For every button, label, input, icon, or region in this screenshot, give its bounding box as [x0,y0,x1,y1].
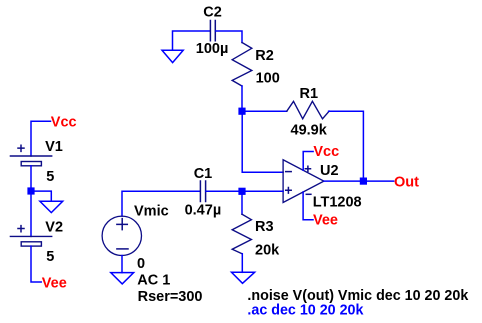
svg-text:C2: C2 [203,5,222,21]
Vcc flag wire V1 [31,121,51,156]
output node junction [360,178,367,185]
svg-text:Vee: Vee [42,275,67,291]
op-amp inverting input mark [286,171,292,173]
op-amp Vee pin and flag [303,192,313,220]
op-amp U2 triangle [283,160,324,203]
wire R2 bottom to node A [241,86,243,111]
op-amp V+ supply mark [305,166,310,171]
svg-text:49.9k: 49.9k [291,123,328,139]
svg-text:Rser=300: Rser=300 [138,289,203,305]
svg-text:R1: R1 [300,86,319,102]
wire Vmic top to C1 [122,191,200,216]
wire Vmic bottom to ground G3 [121,256,123,273]
svg-text:LT1208: LT1208 [313,195,362,211]
svg-text:Vcc: Vcc [313,144,339,160]
svg-text:V1: V1 [45,139,63,155]
resistor R2 [232,43,252,87]
wire C1 to op-amp non-inverting input [206,190,283,192]
wire R3 bottom to ground G4 [241,254,243,273]
Vmic plus mark [117,219,127,230]
voltage source Vmic circle [102,216,141,255]
wire node B down to R3 [241,191,243,214]
svg-text:20k: 20k [255,242,280,258]
svg-text:R3: R3 [255,219,274,235]
svg-text:.ac dec 10 20 20k: .ac dec 10 20 20k [247,303,363,319]
wire R1 right to output node [329,111,364,181]
svg-text:100µ: 100µ [196,41,229,57]
ground G2 [40,201,63,212]
wire V1 bottom to V2 top [30,166,32,237]
svg-text:Out: Out [394,174,419,190]
op-amp non-inverting input mark [286,188,292,194]
battery V2 plus mark [18,226,24,232]
svg-text:V2: V2 [45,219,63,235]
capacitor C1 [200,181,205,202]
svg-text:R2: R2 [255,48,274,64]
svg-text:Vee: Vee [313,212,338,228]
svg-text:U2: U2 [320,163,339,179]
capacitor C2 [210,21,215,41]
ground G3 [111,273,134,284]
svg-text:C1: C1 [194,166,213,182]
ground G1 [162,50,183,62]
resistor R3 [232,214,251,254]
wire node A to R1 [242,110,287,112]
wire C2 to R2 top [216,31,242,43]
wire top-left C2 to ground bend [173,31,210,50]
ground G4 [232,272,255,283]
op-amp Vcc pin and flag [303,152,313,171]
svg-text:AC 1: AC 1 [137,272,170,288]
svg-text:0.47µ: 0.47µ [185,203,222,219]
battery V2 plates [10,236,51,246]
svg-text:0: 0 [137,256,145,272]
svg-text:.noise V(out) Vmic dec 10 20 2: .noise V(out) Vmic dec 10 20 20k [247,288,468,304]
node B junction [238,188,245,195]
wire junction to ground G2 [31,191,51,201]
resistor R1 [287,101,329,119]
wire feedback node A down to inverting input [242,111,283,172]
svg-text:5: 5 [46,249,54,265]
node A junction [238,108,245,115]
wire op-amp output [324,180,394,182]
wire V2 bottom to Vee flag [31,246,41,282]
Vmic minus mark [117,248,128,250]
svg-text:Vcc: Vcc [51,115,77,131]
svg-text:Vmic: Vmic [134,204,169,220]
op-amp V- supply mark [306,193,311,195]
svg-text:100: 100 [256,70,280,86]
battery V1 plus mark [18,145,24,151]
svg-text:5: 5 [46,169,54,185]
battery V1 plates [10,156,51,166]
node mid-supply junction [27,187,34,194]
